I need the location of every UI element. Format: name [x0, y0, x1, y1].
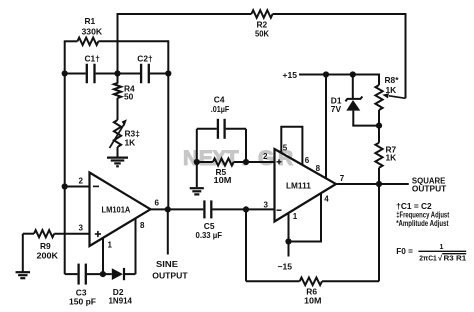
- svg-text:50K: 50K: [255, 29, 269, 39]
- svg-text:+15: +15: [283, 70, 298, 80]
- svg-text:2πC1: 2πC1: [419, 253, 437, 262]
- svg-text:LM101A: LM101A: [102, 205, 131, 214]
- svg-text:50: 50: [124, 92, 134, 102]
- svg-text:*Amplitude Adjust: *Amplitude Adjust: [396, 219, 449, 228]
- svg-text:C4: C4: [214, 95, 225, 105]
- svg-text:10M: 10M: [214, 175, 232, 185]
- svg-text:7V: 7V: [331, 104, 342, 114]
- svg-text:6: 6: [155, 198, 160, 207]
- svg-text:1K: 1K: [386, 153, 397, 163]
- svg-text:10M: 10M: [304, 295, 322, 305]
- svg-text:2: 2: [263, 152, 268, 161]
- svg-text:OUTPUT: OUTPUT: [152, 271, 188, 281]
- svg-text:LM111: LM111: [286, 182, 311, 191]
- svg-text:2: 2: [79, 177, 84, 186]
- svg-text:7: 7: [340, 174, 345, 183]
- svg-text:1K: 1K: [386, 85, 397, 95]
- svg-text:1: 1: [440, 244, 444, 251]
- svg-text:R1: R1: [85, 16, 96, 26]
- svg-text:F0 =: F0 =: [396, 246, 413, 256]
- svg-text:1: 1: [293, 212, 298, 221]
- svg-text:200K: 200K: [37, 250, 59, 260]
- svg-text:1K: 1K: [125, 138, 136, 148]
- svg-text:SINE: SINE: [156, 259, 178, 269]
- svg-text:8: 8: [140, 221, 145, 230]
- svg-text:4: 4: [324, 195, 329, 204]
- svg-text:8: 8: [316, 164, 321, 173]
- svg-text:5: 5: [283, 144, 288, 153]
- svg-text:330K: 330K: [82, 27, 103, 37]
- svg-text:6: 6: [305, 156, 310, 165]
- svg-text:OUTPUT: OUTPUT: [412, 184, 447, 194]
- svg-text:C1†: C1†: [85, 54, 101, 64]
- svg-text:1N914: 1N914: [109, 296, 133, 306]
- svg-text:.01µF: .01µF: [211, 104, 230, 114]
- svg-text:C2†: C2†: [137, 54, 153, 64]
- svg-text:E: E: [199, 147, 213, 170]
- svg-text:1: 1: [108, 241, 113, 250]
- svg-text:3: 3: [79, 224, 84, 233]
- svg-text:150 pF: 150 pF: [69, 297, 96, 307]
- svg-text:R8*: R8*: [385, 75, 400, 85]
- svg-text:0.33 µF: 0.33 µF: [196, 230, 223, 240]
- svg-text:−15: −15: [278, 262, 293, 272]
- svg-text:R3 R1: R3 R1: [444, 253, 467, 262]
- svg-text:3: 3: [264, 200, 269, 209]
